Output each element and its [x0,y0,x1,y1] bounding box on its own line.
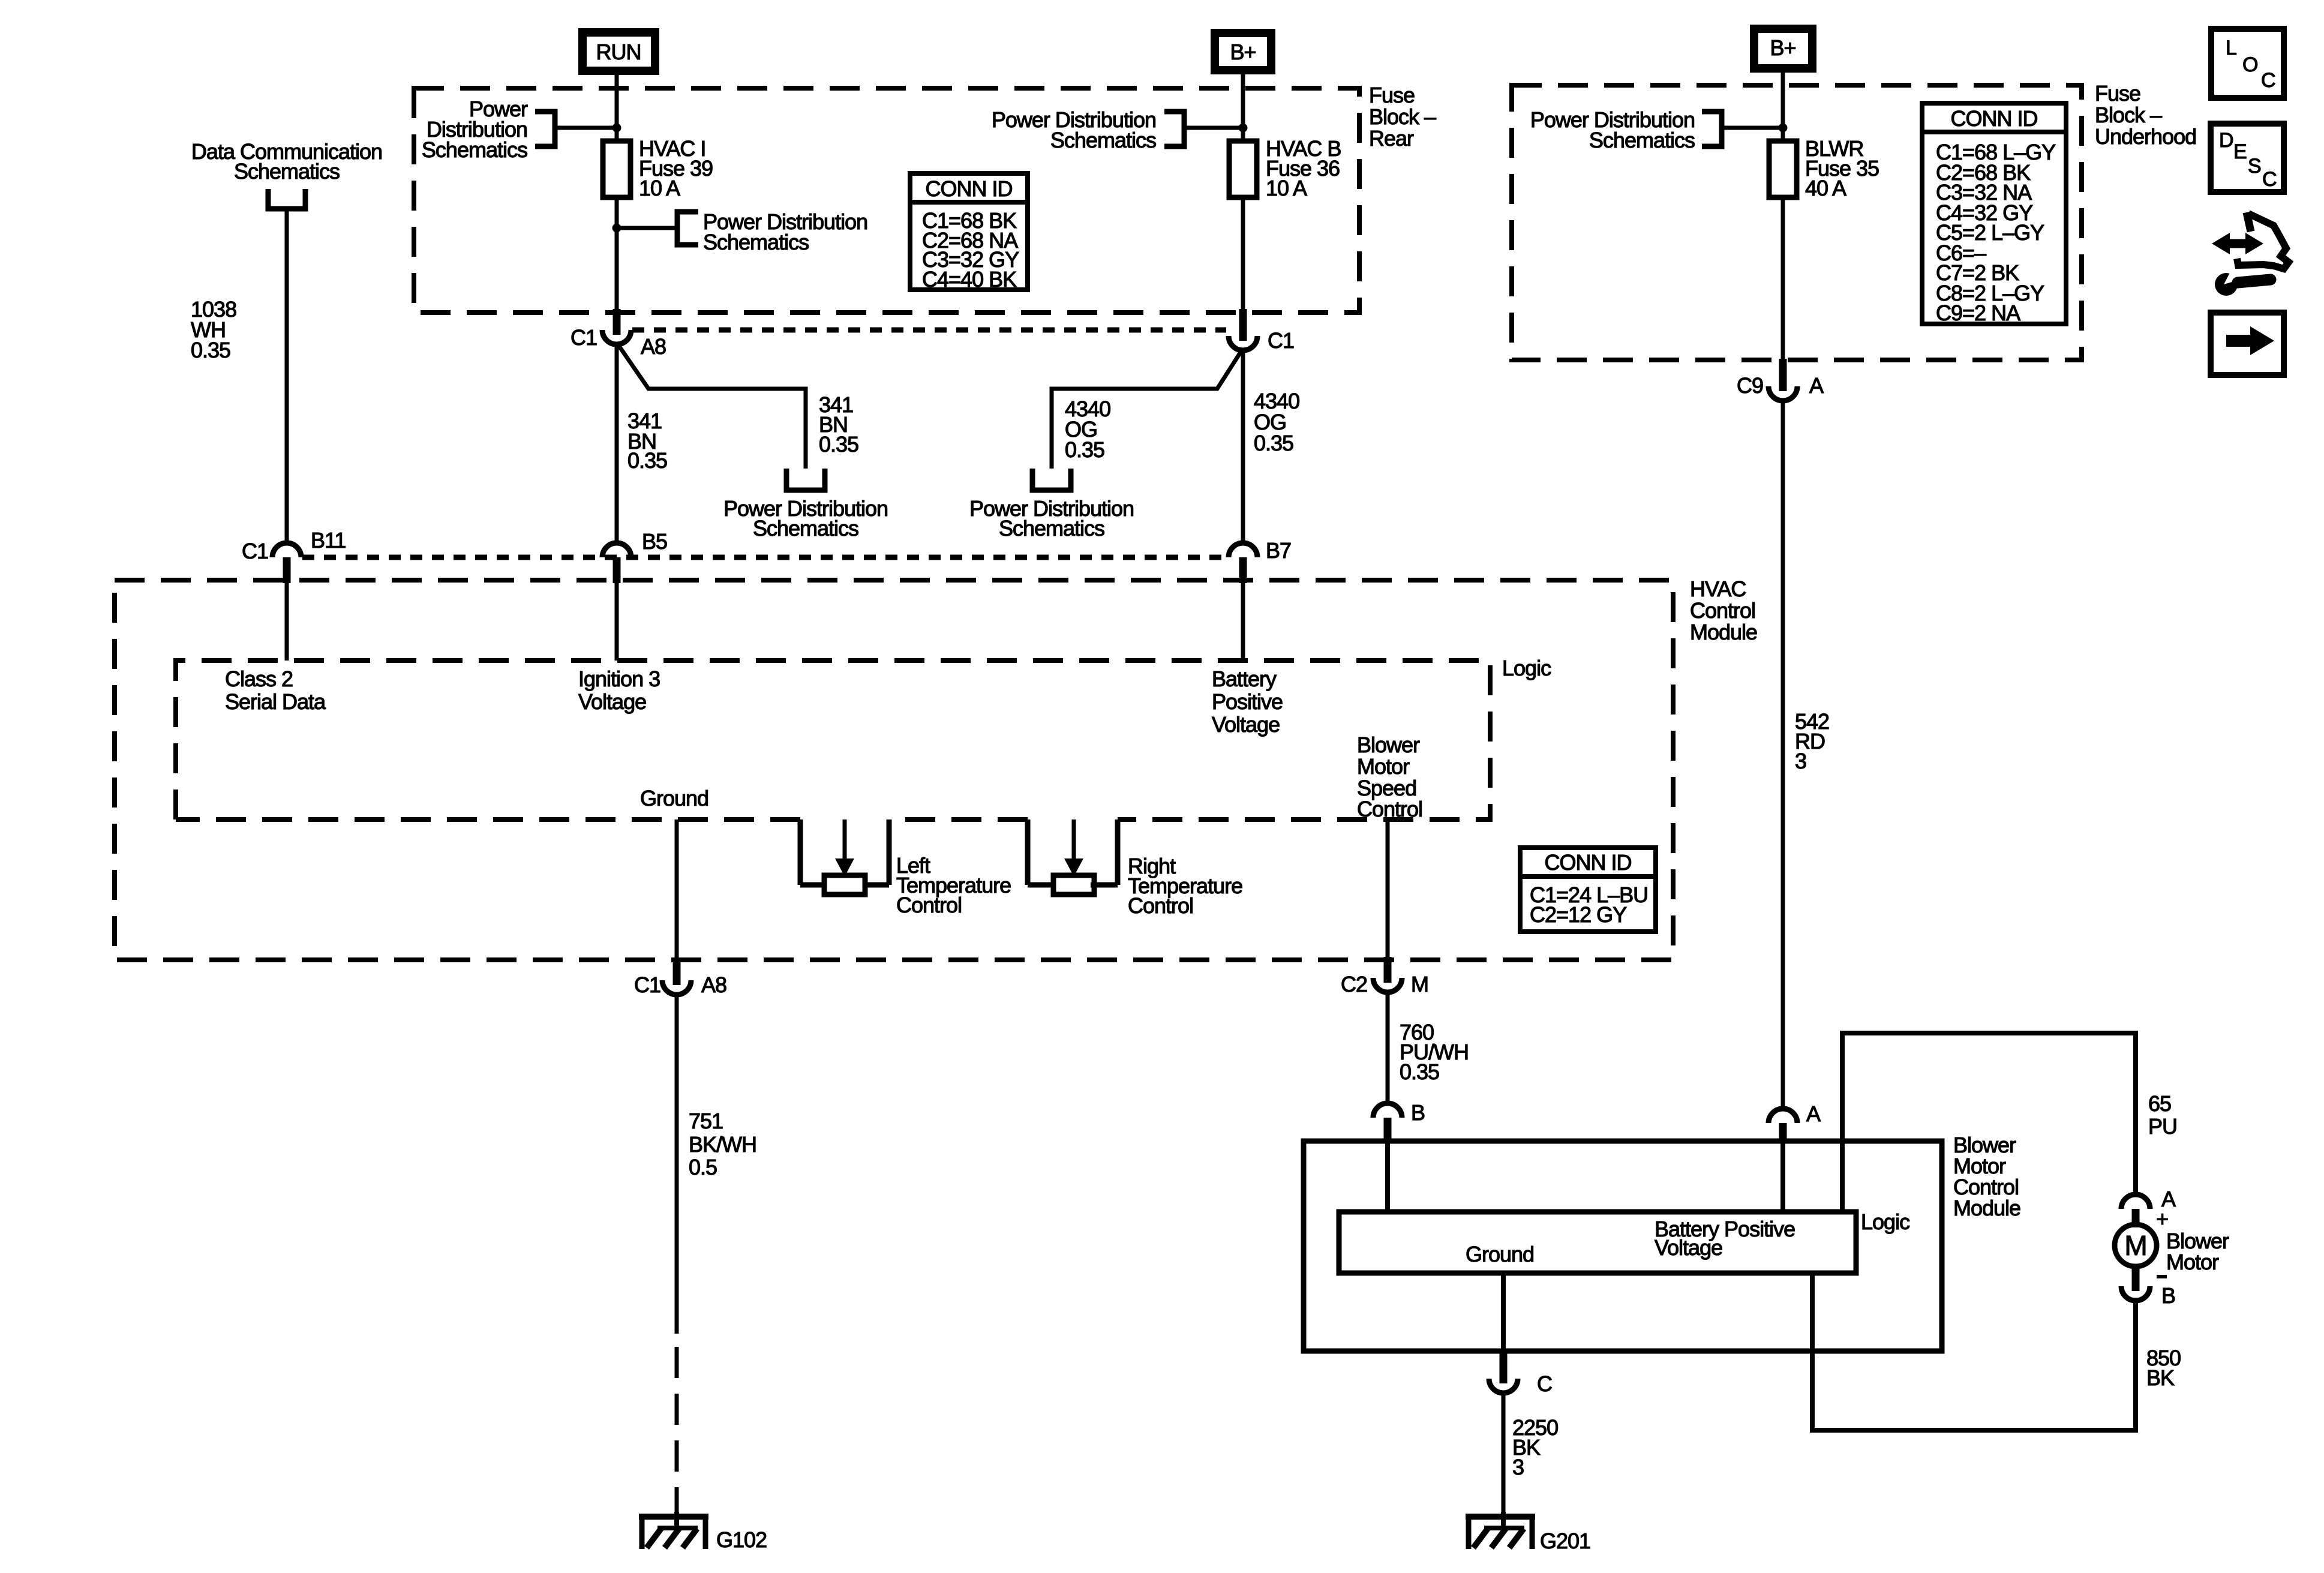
svg-text:Serial Data: Serial Data [225,689,326,714]
bracket power distribution underhood [1702,112,1722,146]
left temperature control resistor [824,875,865,894]
bracket power distribution top-left [535,112,555,146]
fuse F39 HVAC I [603,141,630,197]
wire 341 BN main [615,344,619,543]
svg-text:Control: Control [1357,797,1422,821]
svg-text:D: D [2219,129,2233,152]
connector line B11/B5/B7 (dotted) [302,555,1226,560]
connector C1/A8 pin (ground) [673,958,681,985]
svg-text:Motor: Motor [1357,754,1410,779]
node junction fuse35 top [1779,124,1788,133]
connector C2/M arc [1373,978,1402,992]
svg-text:A: A [1809,373,1824,398]
svg-text:0.35: 0.35 [191,338,230,362]
icon DESC box [2211,124,2284,192]
svg-text:C9: C9 [1737,373,1763,398]
svg-text:Control: Control [1128,893,1193,918]
wire A pin to logic bar [1780,1141,1785,1212]
svg-text:B7: B7 [1266,538,1291,563]
svg-text:0.35: 0.35 [1400,1059,1439,1084]
svg-text:B: B [2161,1283,2175,1308]
svg-text:0.35: 0.35 [1065,437,1104,462]
svg-text:C1: C1 [571,325,597,350]
wire 4340 OG main [1241,350,1245,543]
svg-text:BK/WH: BK/WH [689,1132,756,1157]
svg-text:751: 751 [689,1109,723,1133]
bracket data communication [268,189,305,209]
svg-text:BK: BK [2146,1365,2175,1390]
right temperature control arrow [1072,819,1076,860]
wire 65 PU loop [1842,1033,2136,1212]
svg-text:Rear: Rear [1369,126,1414,151]
wire B+ to fuse 36 [1241,74,1245,141]
svg-text:0.35: 0.35 [1254,431,1293,455]
wire 850 BK [1812,1273,2136,1430]
wire arm power distribution (top left) [555,126,617,130]
icon LOC box [2211,29,2284,98]
svg-text:Battery: Battery [1212,667,1277,691]
icon hood outline [2247,212,2251,232]
svg-text:Schematics: Schematics [1589,128,1695,152]
svg-text:10 A: 10 A [639,176,680,200]
conn id table (underhood) [1922,103,2066,324]
wire arm power distribution (B+ rear) [1184,126,1243,130]
svg-text:Voltage: Voltage [1212,712,1280,737]
blower motor control module box [1304,1141,1942,1351]
svg-text:S: S [2248,155,2261,178]
bracket power distribution B+ rear [1164,112,1184,146]
connector B5 arc [602,543,631,557]
wire 760 PU/WH [1386,992,1390,1104]
connector C1/A8 pin [613,309,621,335]
HVAC control module dashed box [115,580,1673,960]
conn id table (HVAC) [1520,848,1656,932]
svg-text:PU: PU [2148,1114,2177,1139]
fuse F35 BLWR [1769,141,1797,197]
wire B5 to logic box [615,580,619,661]
svg-text:3: 3 [1512,1455,1524,1479]
svg-text:A8: A8 [701,972,726,997]
svg-text:CONN ID: CONN ID [1545,850,1632,875]
left temperature control arrow [843,819,847,860]
svg-text:Ground: Ground [1466,1242,1534,1266]
svg-text:Schematics: Schematics [1050,128,1156,152]
svg-text:Schematics: Schematics [753,516,858,541]
svg-text:0.35: 0.35 [819,432,858,457]
svg-text:Module: Module [1953,1196,2020,1220]
svg-text:Underhood: Underhood [2095,124,2196,149]
icon arrow box [2211,313,2284,375]
icon wrench tool [2215,273,2238,296]
svg-text:M: M [1411,972,1428,996]
wire B7 to logic box [1241,580,1245,661]
RUN terminal box [582,32,655,71]
wire ground to module edge [675,819,679,960]
wire 542 RD [1781,401,1785,1109]
connector B5 pin [613,557,621,583]
svg-text:Fuse: Fuse [2095,81,2140,106]
connector B pin (motor) [2132,1265,2140,1291]
svg-text:Schematics: Schematics [422,137,527,162]
svg-text:65: 65 [2148,1091,2171,1116]
connector C1/B11 arc [272,543,301,557]
wire 751 BK/WH solid [675,995,679,1334]
HVAC logic dashed box [176,661,1490,819]
connector C1/A8 arc (ground) [662,980,691,995]
svg-text:B+: B+ [1770,35,1795,60]
connector C2/M pin [1384,957,1392,983]
wire speed control to module edge [1386,819,1390,960]
svg-text:G201: G201 [1540,1529,1590,1553]
svg-text:40 A: 40 A [1805,176,1846,200]
connector B arc (blower module) [1373,1103,1402,1118]
fuse block - rear dashed box [414,88,1359,313]
connector B pin (blower module) [1384,1118,1392,1143]
connector C9 arc [1768,386,1797,401]
svg-text:CONN ID: CONN ID [926,176,1013,201]
svg-text:Ground: Ground [640,786,708,810]
svg-text:+: + [2156,1206,2168,1231]
svg-text:10 A: 10 A [1266,176,1307,200]
svg-text:C9=2 NA: C9=2 NA [1936,301,2020,325]
svg-text:RUN: RUN [596,40,641,64]
svg-text:CONN ID: CONN ID [1951,106,2038,131]
bracket power distribution lower-right [1032,469,1071,490]
svg-text:B: B [1411,1100,1425,1125]
bracket power distribution lower-left [786,469,825,490]
connector A pin (motor) [2132,1209,2140,1227]
B+ terminal box (rear) [1215,33,1271,70]
B+ terminal box (underhood) [1754,29,1812,68]
svg-text:Voltage: Voltage [578,689,646,714]
fuse F36 HVAC B [1229,141,1257,197]
wire 4340 OG branch [1052,352,1241,469]
svg-text:Block –: Block – [1369,104,1436,129]
wire ground (blower) to module edge [1501,1273,1506,1351]
svg-text:C4=40 BK: C4=40 BK [922,267,1017,292]
wire RUN to fuse 39 [615,75,619,141]
connector B7 arc [1229,543,1257,557]
svg-text:Logic: Logic [1502,656,1551,680]
svg-text:B11: B11 [311,528,346,553]
node junction fuse39 bottom [612,224,621,233]
svg-text:Block –: Block – [2095,103,2162,127]
ground G201 symbol [1466,1514,1535,1520]
svg-text:C1: C1 [242,539,268,563]
node junction fuse39 top [612,124,621,133]
wire B+ to fuse 35 [1781,73,1785,141]
wire B pin to logic bar [1385,1141,1390,1212]
label minus (motor) [2157,1275,2167,1278]
svg-text:0.35: 0.35 [627,448,667,473]
right temperature control resistor [1053,875,1094,894]
svg-text:B+: B+ [1230,40,1256,64]
wire arm power distribution (mid) [617,226,677,230]
wire 751 BK/WH dashed [675,1347,679,1512]
connector C9 pin [1779,359,1787,391]
svg-text:Module: Module [1690,620,1757,644]
svg-text:Blower: Blower [1357,733,1420,757]
svg-text:C2: C2 [1341,972,1367,996]
left temperature control pocket [798,819,803,885]
wire fuse35 to C9 [1781,197,1785,362]
icon wrench double arrow [2227,239,2248,248]
ground G102 symbol [639,1514,708,1520]
svg-text:C1: C1 [1268,328,1294,353]
svg-text:C: C [2261,69,2275,92]
svg-text:HVAC: HVAC [1690,577,1746,601]
svg-text:Schematics: Schematics [234,159,340,184]
connector A arc (motor) [2121,1194,2150,1209]
wire 1038 WH [285,209,289,544]
node junction fuse36 top [1239,124,1248,133]
svg-text:G102: G102 [716,1527,767,1552]
svg-text:Fuse: Fuse [1369,83,1415,107]
wire B11 to logic box [285,580,289,661]
right temperature control pocket [1025,819,1031,885]
connector C pin [1500,1350,1508,1383]
svg-text:0.5: 0.5 [689,1155,717,1179]
svg-text:Motor: Motor [2166,1250,2219,1274]
svg-text:3: 3 [1795,749,1806,773]
svg-text:Control: Control [896,893,962,917]
connector C1 arc (B+) [1229,336,1257,350]
svg-text:L: L [2226,37,2236,59]
svg-text:C1: C1 [634,972,660,997]
connector B7 pin [1239,557,1247,583]
connector C1/A8 arc [602,330,631,344]
svg-text:A: A [1806,1101,1821,1126]
svg-text:Class 2: Class 2 [225,667,293,691]
wire fuse36 to connector C1 [1241,197,1245,320]
svg-text:A8: A8 [641,334,666,359]
wire 2250 BK [1502,1393,1506,1512]
svg-text:Schematics: Schematics [999,516,1104,541]
svg-text:B5: B5 [642,529,667,554]
icon arrow [2226,335,2253,347]
connector line C1 (dotted) [632,328,1226,333]
conn id table (rear) [910,173,1028,290]
connector C arc [1489,1379,1518,1393]
svg-text:O: O [2242,53,2257,76]
connector B arc (motor) [2121,1286,2150,1301]
svg-text:C2=12 GY: C2=12 GY [1530,902,1627,927]
svg-text:C: C [2262,168,2277,191]
svg-text:C: C [1537,1371,1552,1396]
connector A arc (blower module) [1768,1109,1797,1123]
wire fuse39 to connector C1/A8 [615,197,619,314]
svg-text:Ignition 3: Ignition 3 [578,667,660,691]
blower module logic bar [1339,1212,1856,1273]
svg-text:Voltage: Voltage [1655,1235,1722,1260]
svg-text:M: M [2124,1230,2146,1261]
connector A pin (blower module) [1779,1123,1787,1143]
wire 341 BN branch [619,346,806,469]
connector C1/B11 pin [283,557,291,583]
bracket power distribution mid [677,212,698,245]
blower motor circle [2115,1224,2157,1266]
svg-text:Control: Control [1690,598,1755,623]
svg-text:Positive: Positive [1212,689,1283,714]
svg-text:Schematics: Schematics [703,230,809,254]
svg-text:E: E [2233,140,2247,163]
wire arm power distribution (underhood) [1722,126,1783,130]
svg-text:Logic: Logic [1861,1209,1910,1234]
connector C1 pin (B+) [1239,309,1247,341]
fuse block - underhood dashed box [1512,85,2082,360]
